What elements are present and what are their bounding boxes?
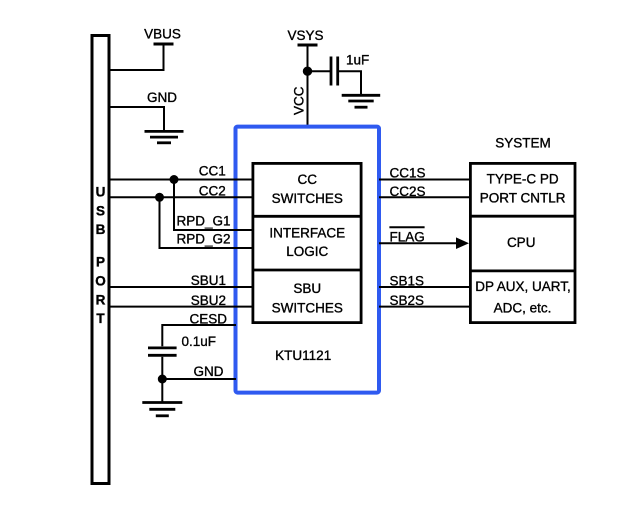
wire SBU1 — [109, 286, 253, 288]
wire RPD_G2 — [160, 197, 254, 248]
svg-text:RPD_G2: RPD_G2 — [176, 232, 230, 247]
svg-text:SB2S: SB2S — [390, 293, 425, 308]
divider between CC switches and interface logic — [253, 215, 361, 218]
block CC SWITCHES / INTERFACE LOGIC / SBU SWITCHES outline — [253, 163, 361, 322]
svg-text:SB1S: SB1S — [390, 273, 425, 288]
wire CC1S — [379, 179, 470, 181]
svg-text:SWITCHES: SWITCHES — [272, 191, 343, 206]
node on GND wire — [158, 375, 167, 384]
svg-text:GND: GND — [147, 90, 177, 105]
USB PORT label (vertical letters) — [95, 185, 106, 327]
divider between interface logic and SBU switches — [253, 269, 361, 272]
svg-text:SBU2: SBU2 — [191, 293, 226, 308]
svg-text:R: R — [96, 293, 106, 308]
wire GND node to ground — [161, 379, 163, 403]
wire FLAG — [379, 242, 457, 244]
svg-text:DP AUX, UART,: DP AUX, UART, — [475, 279, 571, 294]
node VBUS terminal bar — [154, 43, 174, 46]
wire SBU2 — [109, 306, 253, 308]
divider between CPU and DP AUX — [470, 269, 575, 272]
ground symbol (top) — [145, 131, 184, 142]
svg-text:CC1S: CC1S — [390, 166, 426, 181]
ground symbol (under C1) — [342, 95, 381, 107]
svg-text:INTERFACE: INTERFACE — [269, 225, 345, 240]
svg-text:KTU1121: KTU1121 — [275, 348, 331, 363]
svg-text:CC2S: CC2S — [390, 184, 426, 199]
svg-text:FLAG: FLAG — [390, 230, 425, 245]
svg-text:GND: GND — [194, 364, 224, 379]
svg-text:0.1uF: 0.1uF — [182, 334, 217, 349]
USB port connector J1 — [92, 36, 109, 484]
svg-text:VBUS: VBUS — [144, 27, 181, 42]
junction node on VSYS wire — [303, 67, 312, 76]
capacitor C2 0.1uF plates — [148, 346, 177, 349]
svg-text:PORT CNTLR: PORT CNTLR — [480, 191, 566, 206]
wire GND from USB port — [109, 107, 164, 132]
svg-text:CC: CC — [298, 172, 318, 187]
node on CC2 — [155, 193, 164, 202]
wire SB2S — [379, 306, 470, 308]
wire RPD_G1 — [174, 180, 253, 231]
wire CC2S — [379, 196, 470, 198]
svg-text:TYPE-C PD: TYPE-C PD — [487, 172, 559, 187]
svg-text:B: B — [96, 222, 106, 237]
svg-text:RPD_G1: RPD_G1 — [176, 214, 230, 229]
block label CC SWITCHES — [272, 172, 343, 206]
IC U1 KTU1121 blue outline — [236, 127, 380, 393]
wire GND (bottom) — [162, 378, 236, 380]
wire CC2 — [109, 196, 253, 198]
svg-text:CESD: CESD — [189, 311, 227, 326]
node on CC1 — [170, 175, 179, 184]
wire VBUS to USB port — [109, 45, 164, 70]
node VSYS terminal bar — [298, 44, 318, 47]
svg-text:VSYS: VSYS — [287, 28, 323, 43]
svg-text:O: O — [95, 274, 106, 289]
svg-text:SBU1: SBU1 — [191, 273, 226, 288]
svg-text:U: U — [96, 185, 106, 200]
svg-text:SWITCHES: SWITCHES — [272, 300, 343, 315]
wire SB1S — [379, 286, 470, 288]
system blocks outline — [470, 163, 575, 322]
svg-text:SYSTEM: SYSTEM — [495, 136, 551, 151]
svg-text:T: T — [96, 311, 105, 326]
wire CESD — [162, 325, 236, 346]
divider between PD controller and CPU — [470, 215, 575, 218]
svg-text:CC1: CC1 — [199, 164, 226, 179]
block label INTERFACE LOGIC — [269, 225, 345, 258]
block label SBU SWITCHES — [272, 281, 343, 315]
svg-text:S: S — [96, 203, 105, 218]
svg-text:1uF: 1uF — [346, 53, 369, 68]
block label TYPE-C PD PORT CNTLR — [480, 172, 566, 206]
arrowhead FLAG to CPU — [456, 237, 469, 249]
ground symbol (bottom) — [142, 403, 182, 416]
wire CC1 — [109, 179, 253, 181]
capacitor C1 1uF plates — [330, 57, 333, 86]
block label DP AUX, UART, ADC, etc. — [475, 279, 571, 315]
svg-text:LOGIC: LOGIC — [286, 244, 328, 259]
svg-text:VCC: VCC — [292, 86, 307, 115]
svg-text:P: P — [96, 255, 105, 270]
svg-text:ADC, etc.: ADC, etc. — [494, 301, 552, 316]
svg-text:SBU: SBU — [293, 281, 321, 296]
wire C2 to GND node — [161, 357, 163, 379]
wire node to capacitor C1 — [308, 70, 331, 72]
svg-text:CC2: CC2 — [199, 184, 226, 199]
wire VSYS/VCC vertical — [307, 46, 309, 128]
svg-text:CPU: CPU — [507, 235, 536, 250]
wire capacitor C1 to ground — [339, 71, 361, 95]
